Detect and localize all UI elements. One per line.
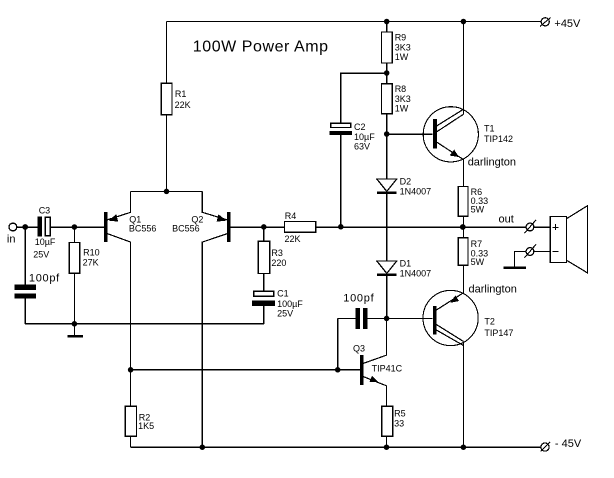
- diode D2: [377, 177, 431, 197]
- resistor R5: [382, 406, 406, 436]
- capacitor C3: [33, 205, 56, 259]
- wire T2 base: [387, 317, 433, 319]
- svg-text:1K5: 1K5: [138, 421, 154, 431]
- node 100pf D1 T2 base: [384, 316, 390, 322]
- resistor R7: [458, 238, 488, 267]
- resistor R10: [69, 243, 99, 274]
- speaker: [550, 206, 587, 273]
- svg-text:- 45V: - 45V: [555, 438, 582, 450]
- wire R10 top lead: [73, 227, 75, 243]
- wire T2 collector vertical to rail: [462, 342, 464, 448]
- svg-text:in: in: [7, 234, 16, 246]
- svg-text:R7: R7: [471, 239, 483, 249]
- wire input to C3: [17, 226, 38, 228]
- wire 100pf left lead: [338, 317, 356, 319]
- resistor R6: [458, 187, 488, 217]
- svg-text:C2: C2: [354, 122, 366, 132]
- svg-text:63V: 63V: [354, 142, 370, 152]
- svg-text:C3: C3: [39, 205, 51, 215]
- capacitor C1: [252, 289, 303, 319]
- node top rail T1 collector: [461, 19, 467, 25]
- wire R7 bottom to T2 emitter: [462, 265, 464, 293]
- wire R3 to C1: [263, 274, 265, 292]
- node R8 T1 base D2: [384, 131, 390, 137]
- transistor T1 darlington: [423, 107, 516, 169]
- svg-text:33: 33: [394, 419, 404, 429]
- resistor R8: [382, 84, 411, 114]
- svg-text:T2: T2: [484, 316, 495, 326]
- svg-text:100W Power Amp: 100W Power Amp: [193, 39, 329, 56]
- svg-text:C1: C1: [277, 289, 289, 299]
- capacitor 100pf Q3: [343, 292, 374, 329]
- wire T2 collector double line: [436, 324, 463, 341]
- wire Q1 emitter: [107, 191, 131, 220]
- svg-text:1W: 1W: [395, 103, 409, 113]
- svg-text:25V: 25V: [33, 250, 49, 260]
- wire Q3 base branch vertical: [337, 318, 339, 369]
- resistor R9: [382, 32, 411, 63]
- transistor Q3: [353, 344, 403, 386]
- svg-text:D2: D2: [400, 177, 412, 187]
- svg-text:R3: R3: [271, 248, 283, 258]
- wire Q2 collector: [202, 234, 227, 448]
- node Q3 base: [335, 367, 341, 373]
- svg-text:10µF: 10µF: [35, 237, 56, 247]
- wire T1 base: [387, 133, 433, 135]
- wire D2 to D1: [386, 194, 388, 261]
- svg-text:27K: 27K: [83, 258, 99, 268]
- svg-text:R8: R8: [395, 84, 407, 94]
- wire C2 bottom to output line: [340, 135, 342, 227]
- svg-text:R1: R1: [175, 89, 187, 99]
- wire R1 bottom lead to emitter rail: [166, 115, 168, 192]
- wire R2 bottom lead: [130, 436, 132, 447]
- node output R6 R7: [460, 224, 466, 230]
- svg-text:TIP142: TIP142: [484, 134, 513, 144]
- wire T2 emitter diagonal: [436, 293, 463, 310]
- node R1 emitter rail: [164, 189, 170, 195]
- node T2 collector rail: [461, 444, 467, 450]
- terminal speaker minus: [524, 244, 536, 257]
- wire Q2 base to R4: [229, 226, 285, 228]
- wire R9-R8 junction to C2: [341, 73, 387, 123]
- svg-text:R10: R10: [83, 248, 100, 258]
- wire Q3 emitter to R5: [363, 377, 386, 407]
- node R5 rail: [384, 444, 390, 450]
- resistor R3: [258, 241, 286, 273]
- terminal +45V: [540, 18, 581, 31]
- svg-text:BC556: BC556: [172, 224, 200, 234]
- wire input node down to 100pf: [24, 227, 26, 285]
- svg-text:Q3: Q3: [353, 344, 365, 354]
- wire feedback node to Q3 base: [131, 369, 361, 371]
- node C2 output line: [338, 224, 344, 230]
- svg-text:100µF: 100µF: [277, 299, 303, 309]
- svg-text:1N4007: 1N4007: [400, 268, 432, 278]
- wire out terminal to speaker: [534, 226, 550, 228]
- svg-text:D1: D1: [400, 259, 412, 269]
- resistor R4: [285, 211, 316, 244]
- svg-text:100pf: 100pf: [29, 273, 60, 285]
- node Q2 collector rail: [200, 444, 206, 450]
- wire T1 collector vertical: [462, 22, 464, 115]
- wire 100pf right lead: [368, 317, 387, 319]
- wire R7 top lead: [462, 227, 464, 238]
- wire bottom rail -45V: [131, 446, 541, 448]
- svg-text:R5: R5: [394, 409, 406, 419]
- wire output line R4 to out terminal: [316, 226, 527, 228]
- svg-text:5W: 5W: [471, 257, 485, 267]
- wire 100pf to ground line: [24, 298, 26, 323]
- svg-text:darlington: darlington: [469, 284, 517, 296]
- node input: [22, 224, 28, 230]
- ground input side: [67, 324, 83, 338]
- svg-text:10µF: 10µF: [354, 132, 375, 142]
- wire C1 bottom lead: [263, 306, 265, 324]
- terminal out: [499, 213, 537, 233]
- node R10 ground: [72, 321, 78, 327]
- wire T1 emitter to R6: [437, 142, 463, 186]
- wire ground line: [25, 323, 264, 325]
- node R10 top: [72, 224, 78, 230]
- svg-text:TIP147: TIP147: [484, 328, 513, 338]
- wire D1 bottom to node: [386, 276, 388, 318]
- wire minus terminal to speaker: [534, 251, 550, 253]
- svg-text:T1: T1: [484, 124, 495, 134]
- node top rail R9: [384, 19, 390, 25]
- diode D1: [377, 259, 431, 279]
- svg-text:25V: 25V: [277, 308, 293, 318]
- node R9-R8 C2 branch: [384, 70, 390, 76]
- svg-text:+45V: +45V: [554, 18, 581, 30]
- transistor Q2: [172, 212, 230, 242]
- transistor Q1: [104, 212, 156, 242]
- wire Q1-Q2 emitter rail: [131, 190, 203, 192]
- wire R9 to R8: [386, 63, 388, 84]
- node Q2 base R3 R4: [261, 224, 267, 230]
- svg-text:out: out: [499, 213, 514, 225]
- node Q1 collector R2: [128, 367, 134, 373]
- node junction dots: [22, 19, 466, 450]
- svg-text:22K: 22K: [285, 234, 301, 244]
- svg-text:R9: R9: [395, 33, 407, 43]
- wire R6 bottom lead: [462, 216, 464, 227]
- resistor R1: [161, 83, 190, 114]
- svg-text:220: 220: [271, 258, 286, 268]
- svg-text:darlington: darlington: [468, 157, 516, 169]
- wire R3 top lead: [263, 227, 265, 241]
- terminal input: [7, 223, 17, 245]
- wire Q3 collector: [363, 318, 386, 363]
- wire Q2 emitter: [202, 191, 227, 220]
- wire C3 to Q1 base: [51, 226, 105, 228]
- transistor T2 darlington: [423, 284, 517, 346]
- capacitor 100pf input: [15, 273, 60, 299]
- terminal -45V: [540, 438, 581, 452]
- resistor R2: [125, 406, 154, 436]
- svg-text:R4: R4: [285, 211, 297, 221]
- svg-text:22K: 22K: [175, 100, 191, 110]
- wire top rail +45V: [167, 21, 542, 23]
- svg-text:5W: 5W: [471, 205, 485, 215]
- wire Q1 collector: [107, 234, 131, 407]
- svg-text:TIP41C: TIP41C: [372, 364, 403, 374]
- wire T1 collector double line: [437, 109, 464, 126]
- wire R9 top lead: [386, 22, 388, 33]
- capacitor C2: [329, 122, 375, 152]
- svg-text:100pf: 100pf: [343, 292, 374, 304]
- svg-text:1W: 1W: [395, 52, 409, 62]
- wire R10 bottom lead: [73, 273, 75, 323]
- wire R1 top lead: [166, 22, 168, 84]
- svg-text:3K3: 3K3: [395, 42, 411, 52]
- ground speaker side: [504, 267, 527, 270]
- wire R5 bottom lead: [386, 436, 388, 447]
- wire R8 bottom to D2: [386, 114, 388, 179]
- svg-text:BC556: BC556: [129, 224, 157, 234]
- svg-text:1N4007: 1N4007: [400, 186, 432, 196]
- wire speaker minus terminal left: [515, 252, 527, 267]
